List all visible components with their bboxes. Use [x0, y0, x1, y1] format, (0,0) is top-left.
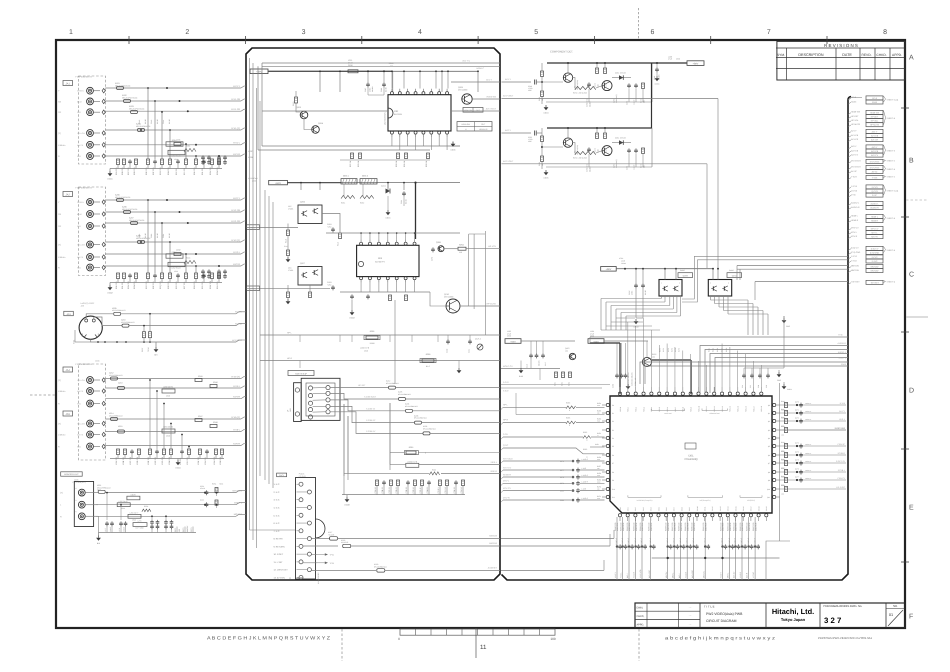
svg-text:1/16WR28: 1/16WR28: [667, 523, 670, 531]
svg-text:R2I 220: R2I 220: [175, 168, 178, 175]
wire thick rail join blocks: [651, 63, 653, 128]
svg-text:SHEET-4: SHEET-4: [887, 249, 896, 252]
svg-text:GND3: GND3: [349, 317, 354, 320]
connector SIDE-IN body: [301, 378, 340, 420]
svg-text:L2B2 S1e-B: L2B2 S1e-B: [171, 155, 181, 158]
svg-text:1.3/1E+F: 1.3/1E+F: [679, 538, 682, 545]
svg-text:S.DET-SV: S.DET-SV: [836, 460, 846, 463]
svg-text:H.3-CY: H.3-CY: [235, 311, 242, 314]
svg-text:S.CXB-3OUT: S.CXB-3OUT: [364, 396, 377, 399]
svg-text:C2A 0.1: C2A 0.1: [374, 487, 377, 494]
svg-text:R28 1K: R28 1K: [425, 160, 428, 167]
svg-text:100: 100: [178, 529, 181, 532]
svg-text:AV3-R: AV3-R: [746, 572, 749, 578]
svg-text:1.3/1E+F: 1.3/1E+F: [692, 538, 695, 545]
wire HP-SET: [330, 387, 388, 389]
svg-text:1/16WR28: 1/16WR28: [704, 523, 707, 531]
svg-text:1.3/1E+F: 1.3/1E+F: [649, 538, 652, 545]
svg-text:JCONSET: JCONSET: [488, 567, 498, 570]
svg-text:+B9V: +B9V: [693, 62, 699, 65]
svg-text:A205: A205: [398, 391, 402, 394]
svg-text:R2C6: R2C6: [186, 257, 190, 260]
svg-text:R280: R280: [560, 499, 564, 502]
svg-text:SACL: SACL: [279, 474, 284, 477]
svg-text:BLUE: BLUE: [77, 213, 83, 216]
svg-text:220: 220: [459, 251, 462, 254]
connector JA5 label: [63, 411, 73, 416]
wire HDMI-SW out: [472, 98, 500, 100]
svg-text:H.V5-(Y): H.V5-(Y): [231, 416, 240, 419]
svg-text:C276: C276: [560, 460, 564, 463]
svg-text:C278: C278: [560, 476, 564, 479]
svg-text:WHITE: WHITE: [77, 434, 84, 437]
wire AV1-Y out: [451, 81, 500, 83]
svg-text:MTV-R: MTV-R: [851, 235, 858, 238]
connector JA2 label box: [63, 192, 73, 197]
wire verticals right of I203: [468, 234, 470, 306]
svg-text:0.1/50: 0.1/50: [156, 233, 159, 238]
svg-text:2538: 2538: [676, 58, 680, 61]
wire stubs MONITOR OUT column: [106, 493, 108, 520]
svg-text:+B5V: +B5V: [510, 340, 516, 343]
svg-text:S.CXB-SV: S.CXB-SV: [366, 430, 376, 433]
svg-text:0.1/50: 0.1/50: [168, 233, 171, 238]
svg-text:(Y): (Y): [60, 492, 63, 495]
svg-text:YOKOHAMA WORKS DWG. No.: YOKOHAMA WORKS DWG. No.: [823, 605, 863, 608]
circle pin detail I203: [358, 261, 363, 266]
fold mark bottom dashed 2: [638, 629, 640, 661]
wire pin2 link: [516, 414, 605, 416]
ic I201 name: [685, 443, 696, 449]
svg-text:CR: CR: [58, 111, 62, 114]
svg-text:100: 100: [652, 355, 655, 358]
resistor R210: [295, 97, 298, 103]
wire H.V2-(Y): [105, 241, 241, 243]
wire loop Q271: [651, 63, 653, 102]
svg-text:L/Mono: L/Mono: [58, 434, 66, 437]
wires I203 top pins to bus: [360, 233, 362, 239]
ferrite bead A215 JA5: [118, 430, 125, 433]
svg-text:C2I 0.1: C2I 0.1: [437, 487, 440, 493]
svg-text:R E V I S I O N S: R E V I S I O N S: [824, 43, 858, 48]
svg-text:A206: A206: [423, 425, 427, 428]
capacitor C2H0 Q271: [588, 82, 590, 84]
ferrite bead A204: [138, 129, 145, 132]
ground PJ401: [289, 577, 291, 579]
resistor R298: [422, 359, 434, 362]
svg-text:H.V2-CR: H.V2-CR: [231, 220, 240, 223]
svg-text:GND4: GND4: [175, 467, 180, 470]
wire H.V2-CB: [105, 211, 241, 213]
wire rail drops top block: [319, 71, 321, 92]
svg-text:NFL21SP107X1C3: NFL21SP107X1C3: [129, 107, 144, 110]
wire S-CV2 pair right: [694, 255, 848, 257]
wire input node Q271: [541, 81, 543, 83]
svg-text:100uH: 100uH: [621, 262, 627, 265]
resistor R2L6: [339, 233, 342, 239]
svg-text:Q274: Q274: [613, 164, 616, 168]
connector group JA4: [63, 367, 73, 372]
svg-text:H.V2-CB: H.V2-CB: [231, 209, 240, 212]
svg-text:(CA)-CV: (CA)-CV: [851, 247, 859, 250]
capacitor C2G1: [469, 339, 471, 341]
svg-text:HDMI-R: HDMI-R: [871, 220, 879, 223]
ground JA4: [177, 459, 179, 461]
svg-text:SHEET-4: SHEET-4: [887, 217, 896, 220]
svg-text:L/Mono: L/Mono: [58, 144, 66, 147]
resistors JA3: [143, 332, 146, 338]
capacitor C268: [642, 283, 644, 285]
capacitor C2G7: [635, 283, 637, 285]
ground right of I201: [783, 382, 785, 384]
diode D2K1 Q273: [612, 142, 631, 144]
svg-text:1: 1: [75, 488, 78, 489]
svg-text:B: B: [909, 158, 914, 165]
svg-text:MONITOR-OUT: MONITOR-OUT: [64, 473, 79, 476]
svg-text:1.6/3 FERRITE: 1.6/3 FERRITE: [317, 572, 320, 584]
svg-text:R296: R296: [370, 330, 375, 333]
svg-text:S.CXB-1V: S.CXB-1V: [366, 407, 376, 410]
svg-text:0655-1: 0655-1: [343, 175, 349, 178]
svg-text:S-CV3: S-CV3: [872, 186, 879, 189]
svg-text:HP-SET: HP-SET: [358, 384, 366, 387]
net label stack connector curve: [848, 98, 862, 101]
svg-text:47/16: 47/16: [631, 291, 634, 295]
wire HP-L rail: [260, 334, 500, 336]
svg-text:RED: RED: [77, 403, 82, 406]
wire MOUT-R: [96, 515, 236, 517]
svg-text:D: D: [909, 388, 914, 395]
wire left drops top block: [261, 63, 263, 146]
label HDMI-ON box: [463, 108, 483, 113]
transistor array Q209 box: [659, 280, 682, 297]
svg-text:C2E 0.1: C2E 0.1: [405, 487, 408, 494]
svg-text:C2G 0.1: C2G 0.1: [419, 486, 422, 493]
svg-text:2520: 2520: [166, 395, 170, 398]
svg-text:CHKD,: CHKD,: [637, 615, 645, 618]
wire bus above I203: [326, 232, 460, 234]
ground GND5: [541, 161, 543, 169]
svg-text:C2A4: C2A4: [162, 120, 165, 124]
svg-text:1740S: 1740S: [288, 207, 294, 210]
ground bus JA4/JA5: [110, 458, 224, 460]
svg-text:1.3/1E+F: 1.3/1E+F: [734, 538, 737, 545]
svg-text:YELLOW: YELLOW: [77, 423, 85, 426]
svg-text:S.CXB-SC: S.CXB-SC: [366, 419, 376, 422]
svg-text:H.V1-VCB: H.V1-VCB: [639, 569, 642, 578]
resistor R246 / wire S.DET-SV: [780, 462, 846, 464]
connector JA3 pins: [85, 319, 88, 322]
svg-text:C2B2: C2B2: [138, 234, 141, 238]
ferrite bead A205: [117, 199, 124, 202]
resistor R2N0: [458, 247, 466, 250]
ferrite bead A211: [98, 490, 105, 493]
diode D2K1 Q271: [612, 77, 631, 79]
ferrite bead A203: [131, 111, 138, 114]
ground bus JA2: [110, 282, 222, 284]
wire AV1-Y/L out: [262, 62, 500, 64]
capacitors middle rail: [403, 191, 405, 193]
svg-text:L2S0 D1+Y: L2S0 D1+Y: [130, 512, 140, 515]
sheet ref SHEET-4: [884, 111, 886, 125]
svg-text:GND2: GND2: [107, 292, 112, 295]
svg-text:C253: C253: [528, 136, 532, 139]
ic I202: [388, 95, 451, 131]
svg-text:L2C2 S1e-B: L2C2 S1e-B: [171, 267, 181, 270]
wire thick video net 2: [690, 360, 692, 394]
svg-text:SIDE-L: SIDE-L: [491, 461, 498, 464]
wire H-SC: [590, 336, 848, 338]
svg-text:- -: - -: [689, 606, 692, 609]
svg-text:1.3/1E+F: 1.3/1E+F: [615, 538, 618, 545]
capacitor C2J7: [542, 353, 544, 355]
svg-text:R2B6: R2B6: [186, 145, 190, 148]
svg-text:HDMI-SW: HDMI-SW: [851, 111, 860, 114]
svg-text:1/16WR28: 1/16WR28: [628, 523, 631, 531]
svg-text:C2F1: C2F1: [430, 257, 433, 261]
svg-text:C2K 0.1: C2K 0.1: [453, 487, 456, 494]
svg-text:H.V2-Y: H.V2-Y: [233, 197, 241, 200]
wire HP drops: [299, 335, 301, 342]
svg-text:R2J 220: R2J 220: [183, 168, 186, 175]
svg-text:C2H 0.1: C2H 0.1: [426, 487, 429, 494]
wire MNTOW pair right: [737, 265, 848, 267]
svg-text:2525: 2525: [97, 488, 101, 491]
connector JA2 dashed outline: [79, 187, 106, 276]
wire Q-SC to I201: [503, 448, 605, 454]
wires bottom fan of I201: [616, 517, 618, 580]
svg-text:HP-L: HP-L: [503, 403, 509, 406]
inductor L204: [162, 429, 175, 433]
capacitor C278 / wire SCXB-R: [503, 476, 572, 478]
svg-text:S-SV2: S-SV2: [872, 260, 879, 263]
connector SIDE-IN S terminal: [294, 383, 302, 422]
svg-text:C2B4: C2B4: [162, 234, 165, 238]
fold mark right gray: [906, 316, 928, 318]
ground lower mid: [346, 495, 348, 497]
top ruler ticks: [128, 36, 130, 44]
resistor R273 Q271: [596, 68, 599, 73]
resistor R269 Q273: [541, 128, 543, 136]
wire +B9V switch rail: [616, 268, 713, 270]
svg-text:AUDIO-L: AUDIO-L: [851, 202, 860, 205]
svg-text:1.3/1E+F: 1.3/1E+F: [703, 538, 706, 545]
svg-text:S-SV: S-SV: [503, 433, 508, 436]
wire JCONSET into box B: [501, 569, 604, 571]
svg-text:AUDIO-R: AUDIO-R: [851, 206, 860, 209]
svg-text:H.V1-Y: H.V1-Y: [614, 571, 617, 578]
capacitor C277 / wire S/TV-CV: [503, 469, 572, 471]
wire AV1-VOUT long: [502, 98, 719, 100]
wire HP-R to I201: [503, 422, 566, 424]
ferrite bead A208: [138, 241, 145, 244]
svg-text:AP-1: AP-1: [251, 226, 257, 229]
svg-text:AV1+CBT: AV1+CBT: [648, 569, 651, 578]
svg-text:AV1-Y: AV1-Y: [505, 78, 511, 81]
svg-text:R3M 220: R3M 220: [213, 457, 216, 465]
svg-text:HP-R: HP-R: [503, 419, 509, 422]
ground bus MONITOR OUT: [99, 532, 197, 534]
resistor R345: [195, 379, 202, 382]
resistor R249 / wire H.3-SVBT: [780, 488, 846, 490]
svg-text:BHI: BHI: [154, 354, 158, 357]
sheet ref SHEET-2,3,4: [884, 185, 886, 195]
svg-text:SHEET-2,3,4: SHEET-2,3,4: [887, 189, 900, 192]
ground JA1: [109, 169, 111, 172]
ground JA2: [109, 283, 111, 286]
svg-text:MOUT-(Y): MOUT-(Y): [233, 489, 243, 492]
wire HP-L to I201: [503, 406, 566, 408]
svg-text:SYM.: SYM.: [777, 53, 785, 57]
svg-text:2: 2: [75, 500, 78, 501]
svg-text:- -: - -: [689, 615, 692, 618]
ground bus JA1: [110, 168, 222, 170]
svg-text:H.V1-R: H.V1-R: [633, 571, 636, 578]
svg-text:0.1/50: 0.1/50: [168, 119, 171, 124]
svg-text:+1/50: +1/50: [327, 283, 331, 286]
svg-text:MTV-CV: MTV-CV: [851, 227, 859, 230]
svg-text:A203: A203: [414, 414, 418, 417]
svg-text:NFL21SP106X1C3: NFL21SP106X1C3: [115, 196, 130, 199]
svg-text:SHEET-2: SHEET-2: [887, 160, 896, 163]
svg-text:C207: C207: [364, 88, 367, 92]
svg-text:1. N.C.: 1. N.C.: [274, 483, 281, 486]
resistor R2S6 zigzag: [142, 509, 151, 512]
svg-text:(CS)-GND: (CS)-GND: [851, 251, 861, 254]
circle pin detail I202: [388, 108, 393, 118]
wire side-in verticals: [264, 190, 266, 480]
svg-text:AV1-Y/L: AV1-Y/L: [462, 60, 470, 63]
svg-text:AV1-Y: AV1-Y: [851, 130, 857, 133]
svg-text:C2C 0.1: C2C 0.1: [388, 487, 391, 494]
wire HDMI-C out: [262, 65, 500, 67]
wire H.V2-L: [105, 253, 241, 255]
svg-text:HP-MUTE: HP-MUTE: [851, 123, 861, 126]
svg-text:NFL21SP86A1C3: NFL21SP86A1C3: [121, 321, 134, 324]
wire S-CV2 S-SV2 inlets: [501, 384, 610, 386]
revisions table: [777, 41, 905, 80]
svg-text:AV2-Y: AV2-Y: [872, 146, 878, 149]
ground top QFP: [778, 370, 780, 372]
svg-text:GNVB: GNVB: [130, 493, 136, 496]
wire H.V2-CR: [105, 222, 241, 224]
ferrite bead A218 RETURN: [303, 545, 338, 547]
svg-text:AV1-CB: AV1-CB: [871, 135, 879, 138]
wire stubs JA4 right column: [149, 380, 151, 449]
connector JA1 dashed outline: [79, 76, 106, 164]
svg-text:L/Mono: L/Mono: [58, 390, 66, 393]
sheet ref SHEET-2: [884, 176, 886, 178]
svg-text:0: 0: [425, 452, 426, 455]
svg-text:NOUT-L: NOUT-L: [839, 357, 847, 360]
svg-text:MTV-L: MTV-L: [851, 231, 858, 234]
svg-text:C: C: [909, 272, 914, 279]
flag component L2C2 JA2: [168, 262, 185, 266]
svg-text:1/16WR28: 1/16WR28: [722, 523, 725, 531]
wire S.CXB-3OUT: [330, 393, 398, 399]
svg-text:NFL21SP86A1C3: NFL21SP86A1C3: [109, 374, 122, 377]
svg-text:A213: A213: [118, 382, 122, 385]
svg-text:HP-VOL: HP-VOL: [488, 245, 497, 248]
svg-text:SCL3: SCL3: [872, 97, 878, 100]
svg-text:AV2-CB: AV2-CB: [851, 149, 859, 152]
svg-text:1/16WR28: 1/16WR28: [735, 523, 738, 531]
svg-text:S-SV2: S-SV2: [851, 259, 858, 262]
svg-text:HP-DET: HP-DET: [871, 116, 879, 119]
wire Q210 base link: [430, 292, 446, 306]
svg-text:1.3/1E+F: 1.3/1E+F: [634, 538, 637, 545]
svg-text:BLUE: BLUE: [77, 100, 83, 103]
svg-text:HVP-L: HVP-L: [839, 418, 846, 421]
svg-text:H.V5-R: H.V5-R: [233, 442, 241, 445]
svg-text:M-CV/SV3: M-CV/SV3: [870, 160, 880, 163]
wire AV2-VOUT long: [502, 163, 708, 165]
svg-text:NJ102YR: NJ102YR: [341, 541, 349, 544]
svg-text:MNTOW: MNTOW: [851, 265, 859, 268]
resistor R243 / wire S.DET-SVF: [780, 429, 846, 431]
svg-text:SH.: SH.: [893, 604, 898, 608]
wire QFP top fan risers: [627, 322, 629, 387]
svg-text:NFL21SP107X1C3: NFL21SP107X1C3: [129, 219, 144, 222]
ic I201 top pins: [618, 392, 621, 395]
scale bar: [400, 629, 555, 635]
svg-text:AV3-CV: AV3-CV: [733, 571, 736, 578]
svg-text:MNT-L: MNT-L: [727, 573, 730, 578]
power flag L-205: [505, 339, 521, 344]
svg-text:GND1: GND1: [386, 217, 391, 220]
svg-text:PW2 VIDEO(Asia) PWB: PW2 VIDEO(Asia) PWB: [706, 612, 743, 616]
svg-text:3 2 7: 3 2 7: [824, 616, 841, 625]
capacitor C2S3: [204, 504, 206, 506]
svg-text:C279: C279: [560, 482, 564, 485]
svg-text:H.T-SC: H.T-SC: [752, 571, 755, 578]
svg-text:Hitachi, Ltd.: Hitachi, Ltd.: [772, 607, 814, 616]
sheet ref SHEET-4: [884, 215, 886, 221]
wire thick video net 1: [619, 343, 621, 394]
resistors under Q207: [287, 292, 290, 298]
capacitors L204: [616, 373, 618, 375]
svg-text:MTV-R: MTV-R: [503, 496, 510, 499]
svg-text:M-CV/SV3: M-CV/SV3: [851, 160, 861, 163]
svg-text:NFL21SP86A1C3: NFL21SP86A1C3: [112, 309, 125, 312]
svg-text:AV1-VOUT: AV1-VOUT: [503, 95, 514, 98]
svg-text:video/sel-out: video/sel-out: [709, 412, 720, 415]
svg-text:1/16WR28: 1/16WR28: [641, 523, 644, 531]
svg-text:S-CV2: S-CV2: [872, 256, 879, 259]
wire S.CXB-SV: [330, 412, 423, 434]
sheet ref SHEET-2: [884, 160, 886, 162]
wire S.CXB-SC: [330, 406, 414, 422]
ic I201 CXA2069Q outline: [610, 396, 772, 513]
wire trunk horizontals box A bottom: [250, 529, 296, 531]
wire junction verticals JA1: [147, 88, 149, 159]
svg-text:R347: R347: [198, 415, 203, 418]
transistor array Q211 box: [708, 280, 731, 297]
resistor row under I202: [351, 153, 354, 159]
svg-text:NFL21SP107X1C3: NFL21SP107X1C3: [122, 208, 137, 211]
svg-text:GND4: GND4: [787, 388, 792, 391]
svg-text:AV-SC: AV-SC: [872, 171, 878, 174]
capacitor C276 / wire S/TV-AUD: [503, 460, 572, 462]
resistor R273 Q273: [596, 133, 599, 138]
svg-text:AV1-CB: AV1-CB: [851, 134, 859, 137]
flag AP-1W: [246, 288, 330, 290]
svg-text:1/16WR28: 1/16WR28: [616, 523, 619, 531]
transistor Q272: [602, 81, 612, 91]
wire H.V2-R: [105, 265, 241, 267]
wire side vertical trunks: [343, 404, 345, 476]
svg-text:AUDIO-L: AUDIO-L: [870, 202, 879, 205]
